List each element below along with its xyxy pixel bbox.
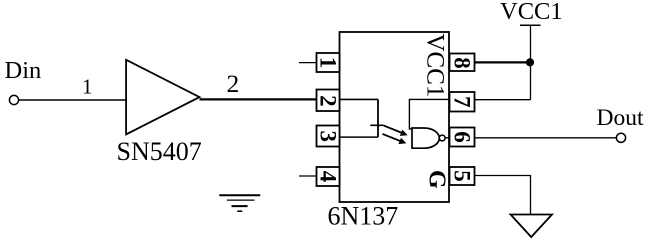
wire VCC1 vertical <box>530 25 532 99</box>
pin 7 box <box>449 92 474 112</box>
pin 2 box <box>315 90 340 112</box>
wire pin 7 to VCC1 <box>475 99 531 101</box>
gate U1a (photodetector AND gate) <box>412 128 439 148</box>
svg-text:6: 6 <box>449 131 474 143</box>
pin 3 box <box>315 126 340 147</box>
wire pin 6 to Dout <box>475 137 617 139</box>
pin 6 box <box>449 128 474 147</box>
svg-text:VCC1: VCC1 <box>422 34 449 98</box>
ground (earth) symbol left <box>219 195 260 211</box>
terminal Dout <box>616 133 625 142</box>
wire stub pin 1 <box>299 62 317 64</box>
pin 5 box <box>449 167 474 185</box>
svg-text:2: 2 <box>227 69 240 98</box>
svg-text:3: 3 <box>315 130 340 142</box>
svg-text:4: 4 <box>315 171 340 183</box>
svg-text:5: 5 <box>449 170 474 182</box>
svg-text:7: 7 <box>449 96 474 108</box>
wire VCC to gate (pin 7 internal) <box>409 99 449 128</box>
svg-text:VCC1: VCC1 <box>500 0 563 25</box>
svg-text:Din: Din <box>5 57 42 84</box>
wire pin 8 to VCC junction <box>475 61 531 63</box>
terminal Din <box>9 95 18 104</box>
wire stub pin 4 <box>299 175 317 177</box>
LED bar <box>370 124 384 126</box>
svg-text:SN5407: SN5407 <box>117 137 202 166</box>
svg-text:1: 1 <box>315 57 340 69</box>
svg-text:8: 8 <box>449 57 474 69</box>
svg-text:G: G <box>424 170 450 189</box>
wire LED cathode return to pin 3 <box>340 136 379 138</box>
pin 8 box <box>449 54 474 72</box>
pin 4 box <box>315 167 340 186</box>
power VCC1 rail bar <box>520 24 541 26</box>
pin 1 box <box>315 53 340 72</box>
gate output bubble <box>439 135 445 141</box>
svg-text:2: 2 <box>315 95 340 107</box>
light arrow 2 <box>383 134 407 144</box>
wire node 2 (buffer output to pin 2) <box>200 98 317 100</box>
junction dot <box>526 58 534 66</box>
wire LED vertical <box>377 99 379 137</box>
wire pin 5 to ground <box>475 176 531 215</box>
svg-text:6N137: 6N137 <box>328 201 399 230</box>
wire Din to buffer input <box>19 99 126 101</box>
svg-text:1: 1 <box>82 75 93 99</box>
wire LED anode (inside IC from pin 2) <box>340 98 379 100</box>
IC U1 6N137 body <box>340 32 450 202</box>
ground triangle <box>511 215 552 238</box>
light arrow 1 <box>384 126 408 136</box>
svg-text:Dout: Dout <box>597 105 644 131</box>
wire bubble to pin 6 <box>445 137 449 139</box>
op-amp buffer U2 SN5407 <box>126 60 199 135</box>
